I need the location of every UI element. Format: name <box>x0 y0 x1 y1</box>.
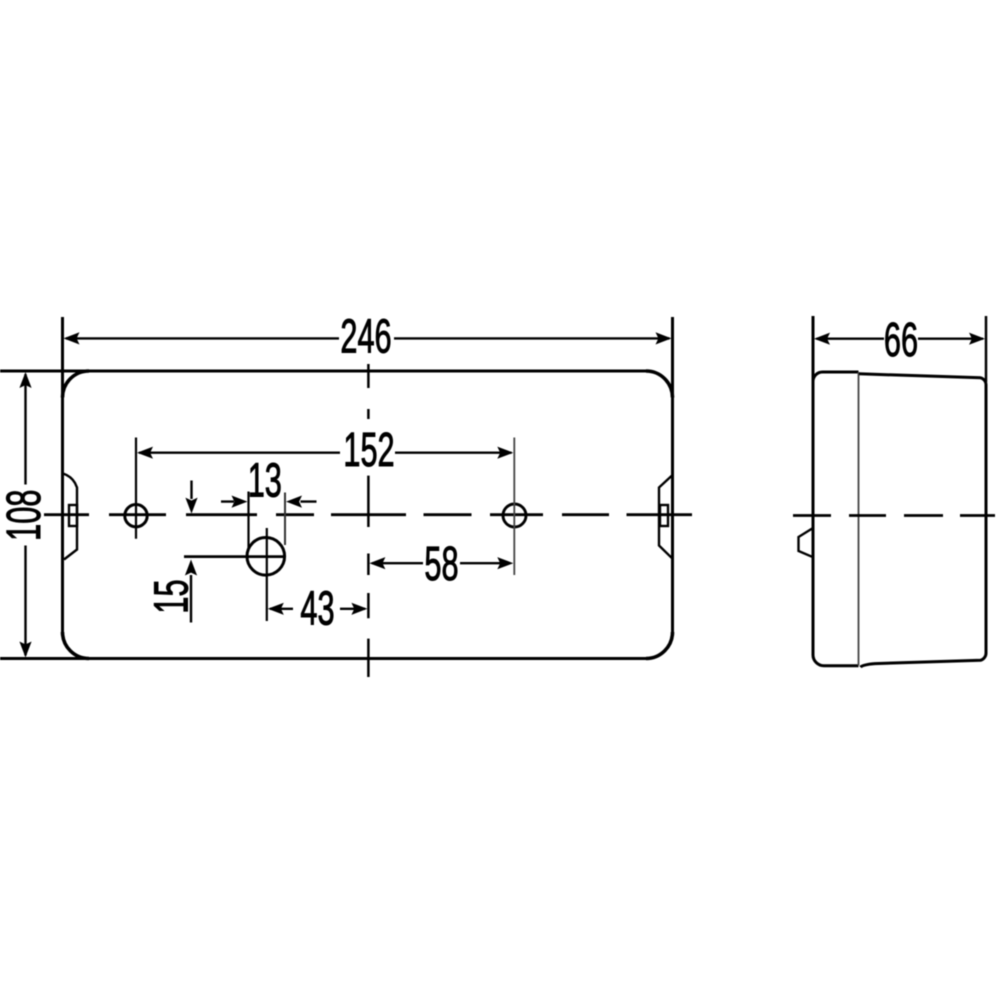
svg-text:43: 43 <box>300 581 334 635</box>
svg-text:246: 246 <box>340 309 391 363</box>
svg-text:66: 66 <box>884 313 918 367</box>
svg-text:152: 152 <box>343 423 394 477</box>
svg-text:108: 108 <box>0 490 51 541</box>
svg-text:15: 15 <box>144 579 198 613</box>
svg-text:13: 13 <box>248 453 282 507</box>
svg-text:58: 58 <box>424 537 458 591</box>
